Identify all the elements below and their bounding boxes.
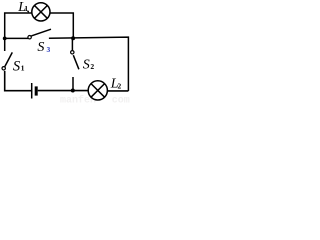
- wire bottom-left (down from S1, corner, to battery): [5, 71, 32, 91]
- svg-text:1: 1: [21, 64, 25, 73]
- wire middle-right (S3 to right edge, down right side): [49, 37, 128, 91]
- lamp L2: [88, 81, 107, 100]
- switch S1: [2, 52, 12, 70]
- node junction top (73,38): [71, 36, 75, 40]
- wire top-right (lamp L1 to corner, down to junction): [50, 13, 73, 38]
- lamp L1: [32, 3, 50, 21]
- watermark manfen.com: [60, 94, 130, 106]
- node junction bottom (73,90.5): [71, 89, 75, 93]
- switch S3: [28, 29, 51, 39]
- label S2: [83, 58, 95, 73]
- svg-text:3: 3: [47, 45, 51, 54]
- background: [0, 0, 131, 103]
- label L2: [110, 77, 122, 92]
- wire bottom-middle (battery to lamp L2): [38, 90, 89, 92]
- label L1: [17, 0, 30, 15]
- svg-text:S: S: [83, 58, 90, 73]
- wire middle-left stub: [5, 37, 29, 39]
- switch S2: [71, 38, 79, 90]
- node junction left (5,38): [3, 37, 7, 41]
- svg-text:2: 2: [118, 81, 122, 90]
- svg-text:com: com: [112, 95, 130, 103]
- label S3: [37, 40, 50, 55]
- label S1: [13, 59, 25, 75]
- svg-text:2: 2: [90, 62, 94, 71]
- wire bottom-right (lamp L2 to right corner): [107, 90, 128, 92]
- svg-text:S: S: [37, 40, 44, 55]
- wire top-left (corner + top run to lamp L1): [5, 13, 32, 51]
- svg-text:,: ,: [27, 4, 30, 15]
- battery B1: [32, 83, 38, 99]
